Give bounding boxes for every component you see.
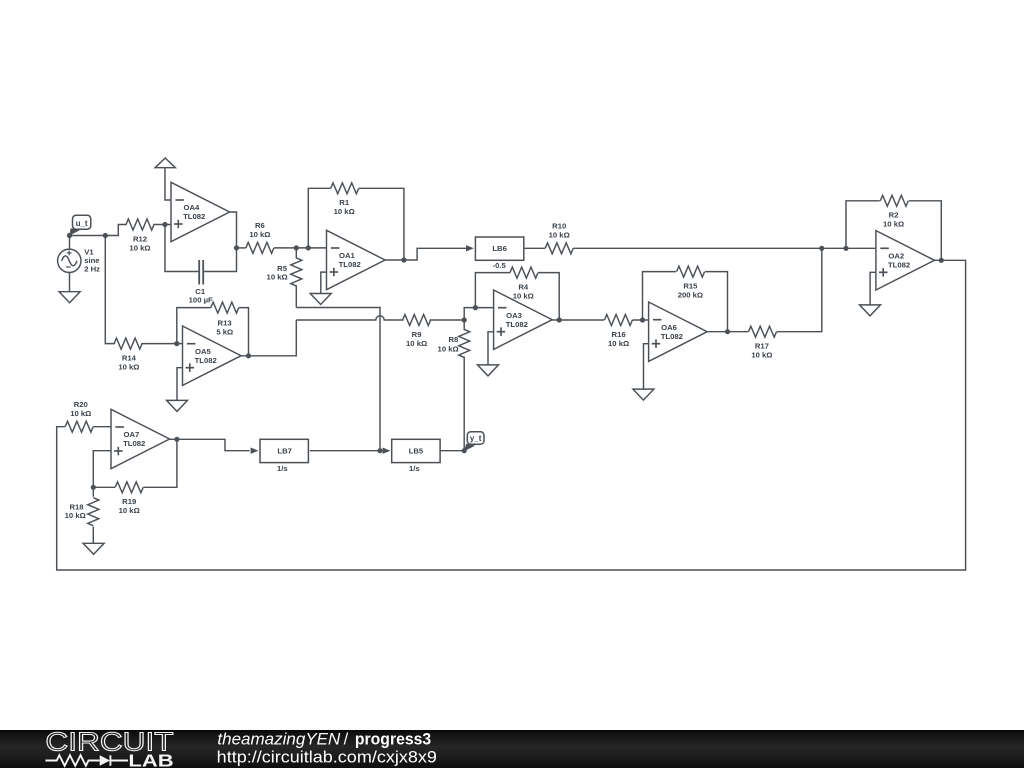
svg-text:R16: R16 — [612, 330, 626, 339]
svg-text:10 kΩ: 10 kΩ — [438, 344, 459, 353]
svg-text:2 Hz: 2 Hz — [84, 264, 100, 273]
svg-text:OA5: OA5 — [195, 347, 212, 356]
svg-text:TL082: TL082 — [183, 212, 205, 221]
svg-text:TL082: TL082 — [123, 439, 145, 448]
svg-text:theamazingYEN: theamazingYEN — [217, 730, 340, 748]
svg-text:OA7: OA7 — [123, 430, 139, 439]
svg-text:TL082: TL082 — [888, 260, 910, 269]
svg-text:LB5: LB5 — [409, 446, 424, 455]
svg-text:200 kΩ: 200 kΩ — [678, 290, 703, 299]
svg-text:10 kΩ: 10 kΩ — [549, 230, 570, 239]
svg-text:LAB: LAB — [128, 750, 173, 769]
svg-text:OA6: OA6 — [661, 323, 677, 332]
svg-text:TL082: TL082 — [661, 332, 683, 341]
svg-text:LB6: LB6 — [492, 244, 507, 253]
svg-text:R13: R13 — [218, 318, 232, 327]
svg-text:R10: R10 — [552, 222, 566, 231]
svg-text:10 kΩ: 10 kΩ — [249, 230, 270, 239]
svg-text:10 kΩ: 10 kΩ — [883, 220, 904, 229]
svg-text:10 kΩ: 10 kΩ — [334, 207, 355, 216]
svg-text:10 kΩ: 10 kΩ — [129, 243, 150, 252]
svg-text:R1: R1 — [339, 198, 350, 207]
svg-text:R6: R6 — [255, 221, 265, 230]
svg-text:R20: R20 — [74, 400, 88, 409]
svg-text:10 kΩ: 10 kΩ — [513, 291, 534, 300]
svg-text:R5: R5 — [277, 264, 288, 273]
svg-text:R18: R18 — [69, 502, 84, 511]
svg-text:y_t: y_t — [470, 434, 482, 443]
svg-text:10 kΩ: 10 kΩ — [118, 362, 139, 371]
svg-text:OA1: OA1 — [339, 251, 356, 260]
svg-text:R19: R19 — [122, 497, 136, 506]
svg-text:5 kΩ: 5 kΩ — [216, 328, 233, 337]
svg-text:R4: R4 — [518, 283, 529, 292]
svg-text:10 kΩ: 10 kΩ — [751, 351, 772, 360]
svg-text:1/s: 1/s — [409, 464, 420, 473]
svg-text:10 kΩ: 10 kΩ — [406, 339, 427, 348]
svg-text:http://circuitlab.com/cxjx8x9: http://circuitlab.com/cxjx8x9 — [217, 747, 437, 766]
svg-text:10 kΩ: 10 kΩ — [70, 409, 91, 418]
svg-text:OA2: OA2 — [888, 252, 904, 261]
svg-text:R12: R12 — [133, 234, 147, 243]
svg-text:/: / — [344, 730, 349, 748]
svg-text:-0.5: -0.5 — [493, 261, 507, 270]
svg-text:R14: R14 — [122, 354, 137, 363]
svg-text:V1: V1 — [84, 247, 94, 256]
svg-text:TL082: TL082 — [339, 260, 361, 269]
svg-text:100 µF: 100 µF — [189, 296, 213, 305]
svg-text:progress3: progress3 — [355, 730, 431, 748]
svg-text:10 kΩ: 10 kΩ — [267, 273, 288, 282]
svg-text:1/s: 1/s — [277, 464, 288, 473]
svg-text:TL082: TL082 — [195, 356, 217, 365]
svg-text:10 kΩ: 10 kΩ — [119, 506, 140, 515]
svg-text:R15: R15 — [683, 282, 698, 291]
svg-text:LB7: LB7 — [277, 446, 292, 455]
svg-text:R17: R17 — [755, 342, 769, 351]
svg-text:10 kΩ: 10 kΩ — [608, 339, 629, 348]
svg-text:R2: R2 — [889, 211, 899, 220]
svg-text:R8: R8 — [448, 335, 459, 344]
svg-text:u_t: u_t — [76, 219, 88, 228]
svg-text:OA3: OA3 — [506, 311, 522, 320]
svg-text:OA4: OA4 — [183, 203, 200, 212]
svg-text:R9: R9 — [412, 330, 422, 339]
svg-text:10 kΩ: 10 kΩ — [65, 511, 86, 520]
svg-text:TL082: TL082 — [506, 320, 528, 329]
